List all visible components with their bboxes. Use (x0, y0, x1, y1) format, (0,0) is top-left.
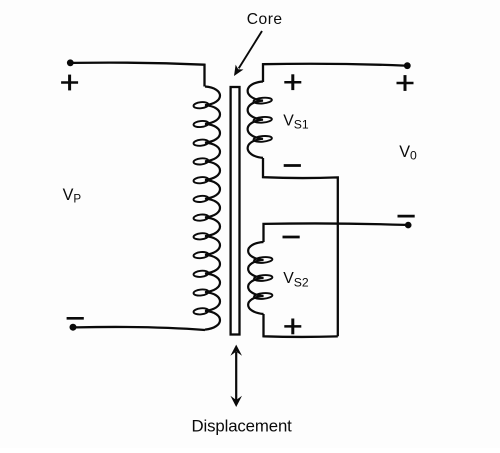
svg-text:Displacement: Displacement (192, 417, 293, 436)
svg-text:Core: Core (247, 11, 283, 28)
